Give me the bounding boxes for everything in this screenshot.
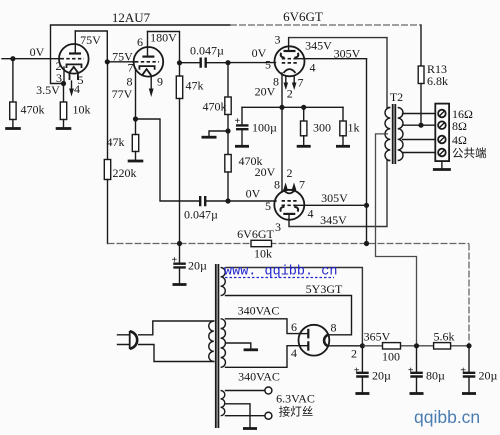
svg-text:6V6GT: 6V6GT bbox=[283, 9, 323, 24]
node 180V plate box bbox=[148, 32, 180, 63]
wire bus right riser to 5.6k node bbox=[468, 244, 470, 346]
svg-text:+: + bbox=[408, 366, 414, 377]
node bus splitter feed bbox=[177, 241, 182, 246]
svg-text:12AU7: 12AU7 bbox=[112, 10, 151, 25]
svg-text:3.5V: 3.5V bbox=[36, 83, 60, 97]
svg-text:3: 3 bbox=[275, 33, 281, 47]
svg-text:9: 9 bbox=[157, 75, 163, 89]
op-amp V1a triode 12AU7 first half bbox=[59, 44, 89, 74]
svg-text:+: + bbox=[460, 366, 466, 377]
wire screen upper 305V bbox=[297, 58, 366, 60]
node 80u bbox=[414, 343, 419, 348]
svg-text:305V: 305V bbox=[321, 191, 348, 205]
svg-text:+: + bbox=[354, 366, 360, 377]
svg-text:5.6k: 5.6k bbox=[434, 330, 455, 344]
wire tap 8 ohm bbox=[403, 124, 436, 126]
svg-text:20µ: 20µ bbox=[479, 369, 498, 383]
transformer T1 HV winding bbox=[221, 319, 226, 368]
svg-text:100µ: 100µ bbox=[252, 121, 277, 135]
node input junction bbox=[10, 56, 15, 61]
ground 1k bbox=[336, 145, 350, 148]
wire plate lower 345V bbox=[289, 161, 390, 227]
node after 5.6k bbox=[466, 343, 471, 348]
resistor 10k cathode bbox=[63, 84, 65, 103]
wire HV bottom to pin 4 bbox=[226, 346, 300, 368]
pin 7 heater arrow bbox=[285, 77, 287, 84]
ground 10k bbox=[56, 127, 72, 130]
ground HV center tap bbox=[244, 348, 258, 351]
resistor 470k lower grid leak bbox=[225, 155, 231, 173]
svg-text:345V: 345V bbox=[320, 213, 347, 227]
wire T2 center tap bbox=[376, 134, 417, 346]
svg-text:2: 2 bbox=[287, 166, 293, 180]
wire HV center tap to ground bbox=[226, 343, 251, 348]
svg-text:10k: 10k bbox=[73, 103, 91, 117]
ground 100u bbox=[235, 145, 249, 148]
wire screen lower 305V bbox=[297, 204, 366, 206]
svg-text:470k: 470k bbox=[203, 100, 227, 114]
node bus screen feed bbox=[364, 241, 369, 246]
wire input bbox=[2, 58, 60, 60]
wire feedback top bus left bbox=[51, 25, 231, 84]
svg-text:4: 4 bbox=[310, 61, 316, 75]
svg-text:340VAC: 340VAC bbox=[238, 370, 280, 384]
svg-text:2: 2 bbox=[351, 347, 357, 361]
resistor 5.6k dropper bbox=[434, 343, 451, 349]
transformer T2 secondary winding bbox=[398, 108, 403, 161]
wire HV top to pin 6 bbox=[226, 319, 300, 334]
op-amp V1b triode 12AU7 second half bbox=[134, 47, 164, 77]
wire 6.3V top terminal bbox=[226, 390, 265, 392]
capacitor 20u first filter bbox=[361, 346, 363, 373]
diode tube 5Y3GT rectifier bbox=[299, 325, 330, 356]
ground terminal strip bbox=[441, 161, 443, 168]
svg-text:340VAC: 340VAC bbox=[238, 304, 280, 318]
wire 5V winding bottom to pin8 bbox=[226, 296, 352, 335]
svg-text:8: 8 bbox=[331, 321, 337, 335]
svg-text:+: + bbox=[235, 116, 241, 127]
wire screen riser bbox=[366, 59, 368, 244]
wire tap 16 ohm bbox=[403, 113, 436, 115]
svg-text:470k: 470k bbox=[21, 103, 45, 117]
wire cathode upper bbox=[281, 73, 283, 107]
node lower grid junction bbox=[225, 198, 230, 203]
ground first filter bbox=[355, 392, 369, 395]
terminal screw common bbox=[438, 149, 446, 157]
capacitor 80u second filter bbox=[416, 346, 418, 373]
svg-text:1k: 1k bbox=[348, 121, 360, 135]
terminal strip box bbox=[435, 104, 449, 162]
resistor 100 dropper bbox=[383, 343, 401, 349]
transformer T1 core bbox=[216, 264, 219, 428]
node upper grid junction bbox=[225, 60, 230, 65]
ground third filter bbox=[462, 392, 476, 395]
svg-text:47k: 47k bbox=[107, 135, 125, 149]
wire 365V rail bbox=[362, 345, 469, 347]
svg-text:8: 8 bbox=[274, 178, 280, 192]
svg-text:0.047µ: 0.047µ bbox=[184, 208, 218, 222]
ground second filter bbox=[410, 392, 424, 395]
resistor 1k cathode bbox=[342, 107, 344, 121]
svg-text:80µ: 80µ bbox=[426, 369, 445, 383]
ground 20u bus bbox=[173, 283, 187, 286]
wire upper grid bbox=[228, 62, 276, 64]
svg-text:7: 7 bbox=[299, 178, 305, 192]
wire feedback top bus right bbox=[230, 24, 421, 26]
transistor V3 6V6GT lower beam tube bbox=[274, 190, 304, 220]
svg-text:47k: 47k bbox=[186, 79, 204, 93]
svg-text:5: 5 bbox=[265, 199, 271, 213]
svg-text:4Ω: 4Ω bbox=[452, 133, 467, 147]
pin 9 heater arrow bbox=[150, 76, 152, 89]
wire midpoint to ground bbox=[209, 131, 228, 136]
node grid-leak midpoint bbox=[225, 128, 230, 133]
wire plate upper 345V bbox=[289, 38, 391, 108]
svg-text:+: + bbox=[172, 255, 178, 266]
svg-text:305V: 305V bbox=[334, 47, 361, 61]
node 8 ohm feedback tap bbox=[418, 123, 423, 128]
svg-text:5: 5 bbox=[265, 58, 271, 72]
wire plug to primary top bbox=[139, 321, 214, 335]
svg-text:10k: 10k bbox=[254, 247, 272, 261]
wire tap 4 ohm bbox=[403, 139, 436, 141]
plug AC mains bbox=[129, 331, 131, 349]
wire pin 2 to 365V node bbox=[329, 345, 362, 347]
svg-text:6V6GT: 6V6GT bbox=[237, 227, 274, 241]
svg-text:365V: 365V bbox=[364, 330, 391, 344]
svg-text:7: 7 bbox=[128, 61, 134, 75]
svg-text:3: 3 bbox=[275, 220, 281, 234]
svg-text:公共端: 公共端 bbox=[452, 147, 487, 160]
node V1b plate junction bbox=[177, 60, 182, 65]
ground 300 bbox=[297, 145, 311, 148]
resistor 47k plate load splitter bbox=[176, 76, 182, 99]
wire grid lower bbox=[228, 200, 276, 202]
resistor 470k upper grid leak bbox=[227, 63, 229, 97]
terminal screw 4 ohm bbox=[438, 136, 446, 144]
wire 6.3V center tap ground bbox=[226, 404, 251, 427]
wire cathode lower tube riser bbox=[281, 107, 283, 192]
svg-text:75V: 75V bbox=[80, 33, 101, 47]
ground input bbox=[5, 127, 21, 130]
svg-text:220k: 220k bbox=[113, 166, 137, 180]
svg-text:4: 4 bbox=[308, 207, 314, 221]
wire B+ bus bbox=[108, 243, 470, 245]
transformer T1 primary winding bbox=[209, 321, 214, 361]
svg-text:0V: 0V bbox=[246, 187, 261, 201]
svg-text:6: 6 bbox=[137, 35, 143, 49]
svg-text:300: 300 bbox=[313, 121, 331, 135]
transistor V2 6V6GT upper beam tube bbox=[275, 46, 305, 76]
wire 6.3V bottom terminal bbox=[226, 415, 265, 417]
wire 5V winding top to pin2 node bbox=[226, 268, 363, 346]
svg-text:180V: 180V bbox=[150, 31, 177, 45]
pin 4 heater arrow bbox=[71, 81, 73, 89]
svg-text:345V: 345V bbox=[305, 39, 332, 53]
node cathode V1a bbox=[61, 81, 66, 86]
capacitor 20u bus filter bbox=[179, 244, 181, 264]
terminal screw 8 ohm bbox=[438, 121, 446, 129]
terminal screw 16 ohm bbox=[438, 110, 446, 118]
capacitor 20u third filter bbox=[468, 346, 470, 373]
pin 2 heater arrow up bbox=[285, 188, 287, 191]
svg-text:接灯丝: 接灯丝 bbox=[279, 406, 314, 419]
resistor R13 6.8k feedback bbox=[418, 66, 424, 84]
ground grid leak bbox=[202, 136, 217, 139]
transformer T2 primary winding bbox=[385, 108, 390, 161]
svg-text:6.8k: 6.8k bbox=[427, 74, 448, 88]
svg-text:100: 100 bbox=[382, 350, 400, 364]
node V1a plate to V1b grid bbox=[105, 59, 110, 64]
wire grid V1b bbox=[107, 61, 134, 63]
svg-text:6.3VAC: 6.3VAC bbox=[276, 392, 315, 406]
svg-text:4: 4 bbox=[74, 82, 80, 96]
svg-text:8Ω: 8Ω bbox=[452, 119, 467, 133]
svg-text:T2: T2 bbox=[390, 90, 403, 104]
resistor 470k input bbox=[12, 59, 14, 102]
node 75V plate box bbox=[75, 31, 107, 62]
svg-text:7: 7 bbox=[298, 76, 304, 90]
transformer T2 core bbox=[393, 104, 396, 164]
capacitor 0.047u lower bbox=[200, 196, 205, 206]
wire plug to primary bottom bbox=[139, 345, 214, 362]
resistor 220k plate load bbox=[107, 62, 109, 160]
pin 7 heater arrow up bbox=[293, 188, 295, 191]
svg-text:0V: 0V bbox=[30, 45, 45, 59]
svg-text:5Y3GT: 5Y3GT bbox=[306, 282, 343, 296]
resistor 47k cathode of splitter bbox=[132, 135, 138, 152]
capacitor 0.047u upper bbox=[180, 62, 229, 64]
transformer T1 5V rectifier winding bbox=[221, 268, 226, 296]
resistor 10k dropper on bus bbox=[251, 240, 272, 246]
wire tap common bbox=[403, 152, 436, 154]
node 365V bbox=[360, 343, 365, 348]
svg-text:20µ: 20µ bbox=[372, 369, 391, 383]
ground 47k cathode bbox=[128, 160, 144, 163]
transformer T1 6.3V heater winding bbox=[221, 391, 225, 416]
svg-text:20V: 20V bbox=[255, 85, 276, 99]
svg-text:4: 4 bbox=[291, 346, 297, 360]
svg-text:qqibb.cn: qqibb.cn bbox=[414, 407, 480, 427]
pin 2 heater arrow bbox=[293, 77, 295, 84]
svg-text:6: 6 bbox=[291, 320, 297, 334]
wire cathode output bbox=[136, 119, 200, 201]
svg-text:2: 2 bbox=[287, 87, 293, 101]
svg-text:20V: 20V bbox=[255, 165, 276, 179]
svg-text:77V: 77V bbox=[112, 87, 133, 101]
wire cathode rail bbox=[242, 106, 343, 108]
svg-text:0.047µ: 0.047µ bbox=[190, 44, 224, 58]
svg-text:20µ: 20µ bbox=[188, 259, 207, 273]
resistor 300 cathode bbox=[303, 107, 305, 121]
capacitor 100u cathode bypass bbox=[241, 107, 243, 125]
wire R13 upper lead bbox=[420, 25, 422, 66]
node V1b cathode junction bbox=[133, 116, 138, 121]
